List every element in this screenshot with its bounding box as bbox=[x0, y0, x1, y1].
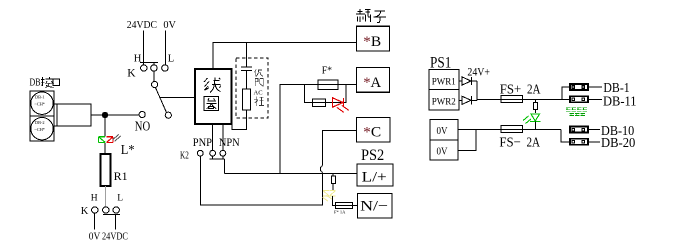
svg-text:H: H bbox=[91, 194, 98, 204]
svg-text:FS+: FS+ bbox=[500, 82, 522, 97]
svg-text:AC: AC bbox=[254, 90, 263, 97]
svg-text:FS−: FS− bbox=[499, 136, 521, 151]
svg-text:NO: NO bbox=[135, 119, 150, 134]
svg-text:0V: 0V bbox=[163, 19, 176, 31]
svg-text:0V: 0V bbox=[89, 230, 101, 242]
svg-text:DB-2: DB-2 bbox=[35, 120, 45, 125]
svg-text:L/+: L/+ bbox=[362, 170, 387, 186]
svg-text:2A: 2A bbox=[527, 82, 541, 97]
svg-text:24VDC: 24VDC bbox=[102, 230, 128, 242]
svg-text:DB-20: DB-20 bbox=[601, 136, 635, 151]
svg-text:PS2: PS2 bbox=[361, 147, 384, 164]
svg-text:~CH*: ~CH* bbox=[35, 101, 45, 106]
svg-text:NPN: NPN bbox=[219, 135, 240, 149]
svg-text:PWR2: PWR2 bbox=[432, 98, 456, 108]
svg-text:L*: L* bbox=[121, 143, 135, 158]
svg-text:PNP: PNP bbox=[193, 135, 212, 149]
svg-text:PWR1: PWR1 bbox=[432, 78, 456, 88]
svg-text:*A: *A bbox=[363, 75, 381, 91]
svg-text:H: H bbox=[134, 53, 142, 64]
svg-text:2A: 2A bbox=[527, 136, 541, 151]
svg-text:L: L bbox=[117, 193, 123, 203]
svg-text:K: K bbox=[127, 68, 136, 80]
svg-text:K2: K2 bbox=[180, 150, 189, 161]
svg-text:*B: *B bbox=[363, 34, 381, 50]
svg-text:L: L bbox=[168, 53, 174, 64]
svg-text:0V: 0V bbox=[437, 146, 448, 157]
svg-text:DB: DB bbox=[30, 77, 41, 88]
svg-text:24V+: 24V+ bbox=[467, 64, 490, 78]
svg-text:PS1: PS1 bbox=[430, 54, 451, 71]
svg-text:F* 1A: F* 1A bbox=[334, 210, 346, 215]
svg-text:DB-1: DB-1 bbox=[35, 95, 45, 100]
svg-text:0V: 0V bbox=[437, 126, 448, 137]
svg-text:K: K bbox=[81, 206, 89, 217]
svg-text:R1: R1 bbox=[114, 169, 128, 183]
svg-text:N/−: N/− bbox=[360, 199, 388, 215]
svg-text:~CH*: ~CH* bbox=[35, 127, 45, 132]
svg-text:*C: *C bbox=[363, 125, 381, 141]
svg-text:24VDC: 24VDC bbox=[127, 19, 157, 31]
svg-text:DB-11: DB-11 bbox=[603, 94, 637, 109]
svg-text:F*: F* bbox=[322, 65, 332, 77]
